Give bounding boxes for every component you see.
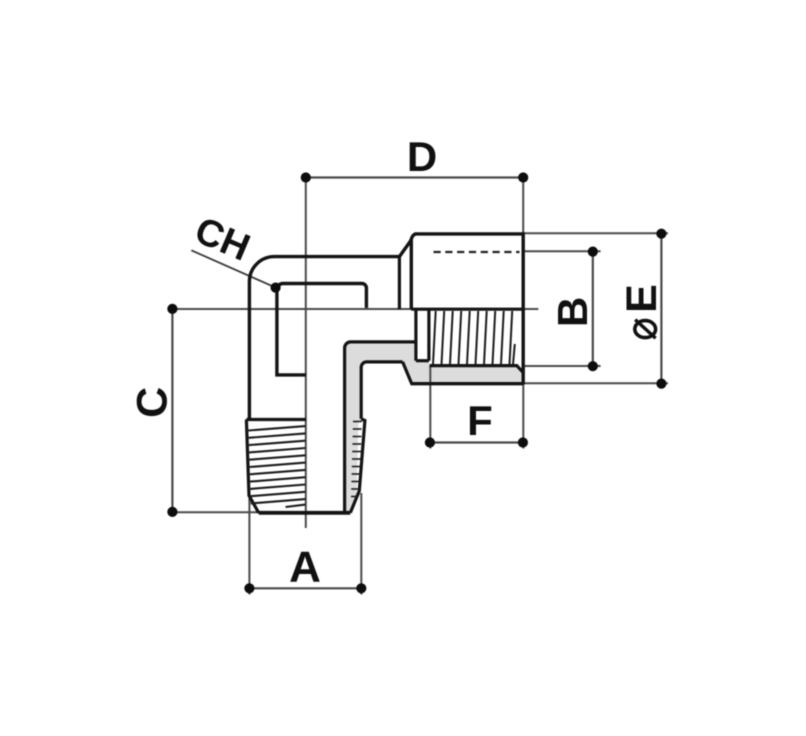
female thread bottom (minor dia) + chamfer (430, 366, 523, 372)
rear face inner edge (cone base) (398, 257, 401, 310)
svg-text:C: C (129, 387, 177, 418)
dimension F line (430, 441, 523, 443)
dot D left (301, 172, 311, 182)
dimension C line (171, 309, 173, 512)
female port top boundary (section) (411, 308, 523, 311)
dot F left (425, 437, 435, 447)
female end rear face (upper half) (410, 240, 413, 309)
dot F right (518, 437, 528, 447)
male thread section ticks (right, in gray) (351, 422, 362, 497)
dimension A line (249, 587, 361, 589)
svg-text:E: E (618, 284, 666, 313)
recess right wall (427, 309, 430, 361)
recess bottom (416, 359, 429, 362)
dot CH leader (271, 283, 281, 293)
thin centerline vertical (vertical leg axis) (305, 178, 307, 529)
male thread crest top edge (246, 418, 306, 421)
extension line A left (248, 498, 250, 595)
extension line D right (522, 178, 524, 234)
leader line CH (191, 250, 275, 287)
dimension D line (306, 176, 523, 178)
extension line F left (429, 366, 431, 449)
male thread left taper + chamfer (246, 420, 258, 513)
hidden dashed line (thread minor, upper half) (434, 251, 520, 253)
dot E bottom (656, 379, 666, 389)
thin centerline horizontal (172, 308, 538, 310)
body outline: left edge + top arc + top edge (249, 257, 399, 420)
extension line E bottom (523, 382, 668, 384)
extension line B bottom (523, 365, 600, 367)
dot B bottom (588, 361, 598, 371)
svg-text:F: F (467, 397, 493, 444)
svg-text:A: A (289, 543, 321, 592)
female end right face (522, 232, 525, 384)
female end bottom edge (411, 382, 524, 385)
diameter symbol of label E (635, 321, 656, 338)
section wall outlines: bore wall vertical + outer corner arc + band top (345, 342, 416, 512)
extension line E top (523, 232, 668, 234)
dot E top (656, 229, 666, 239)
extension line C bottom (172, 511, 262, 513)
female end top edge (415, 232, 523, 235)
dimension B line (592, 252, 594, 367)
dimension E line (660, 234, 662, 384)
dot A right (356, 583, 366, 593)
chamfer cone diagonal (399, 234, 416, 257)
extension line F right (522, 385, 524, 449)
transition diagonal to female bottom (403, 362, 412, 384)
dot A left (244, 583, 254, 593)
dot C bottom (167, 507, 177, 517)
extension line B top (523, 250, 600, 252)
dot C top (167, 304, 177, 314)
inner contour (hex / CH edge) (277, 284, 367, 375)
band inner boundary: horizontal + inner corner arc + leg right silhouette (361, 362, 402, 419)
dot D right (518, 172, 528, 182)
male thread hatch lines (outside view half) (248, 426, 305, 507)
dimension dots (167, 172, 666, 593)
svg-text:B: B (549, 297, 596, 327)
extension line A right (360, 493, 362, 595)
male end bottom edge (259, 511, 351, 515)
svg-text:D: D (407, 133, 437, 180)
male thread right taper + chamfer (section side) (350, 419, 365, 513)
section fill (gray wall of elbow, L-shaped band) (345, 342, 524, 513)
female thread hatch lines (433, 311, 515, 365)
recess left wall (414, 309, 417, 361)
dot B top (588, 247, 598, 257)
